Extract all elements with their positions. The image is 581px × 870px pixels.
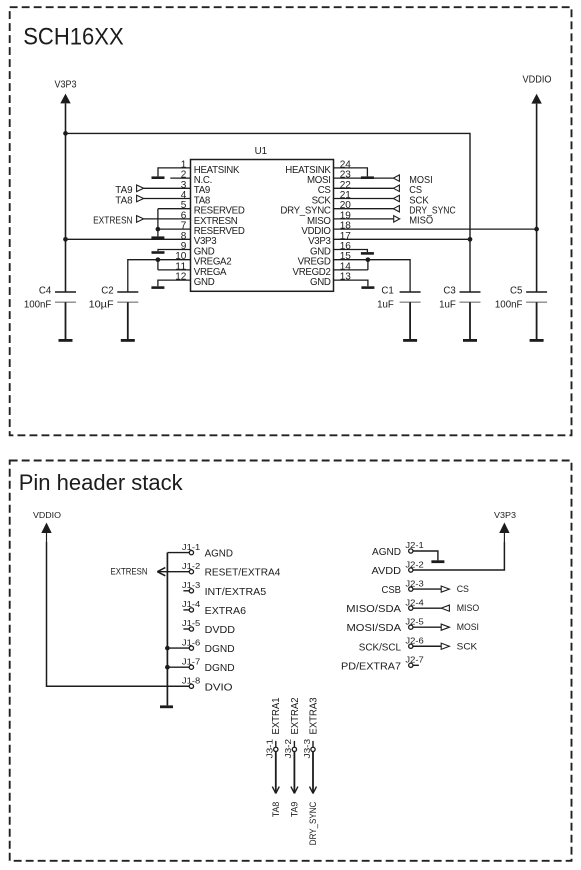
connector J1 pin 7 (DGND) [167,656,235,674]
ground reserved [151,236,164,239]
svg-text:TA8: TA8 [271,802,281,818]
svg-text:DVIO: DVIO [205,681,233,693]
connector J3 pin 1 (EXTRA1) [265,697,283,758]
wire pin19 MISO [334,218,394,220]
svg-text:MOSI/SDA: MOSI/SDA [347,622,402,634]
wire vrega tie [157,260,159,270]
svg-text:GND: GND [310,277,331,288]
svg-text:10µF: 10µF [89,299,114,310]
connector J1 pin 6 (DGND) [167,637,235,655]
U1 pin 19 MISO [307,210,351,226]
junction V3P3 pin17 [468,237,473,242]
port EXTRESN (header) [111,566,166,576]
svg-text:1uF: 1uF [439,299,456,310]
port MISO [394,216,434,227]
svg-text:J1-1: J1-1 [182,542,201,552]
wire pin20 DRY_SYNC [334,208,394,210]
svg-text:EXTRESN: EXTRESN [111,566,148,576]
svg-text:J1-2: J1-2 [182,561,201,571]
U1 pin 4 TA8 [181,190,210,206]
wire C5 to ground [536,302,538,339]
ground pin13 [361,286,374,289]
connector J1 pin 8 (DVIO) [182,676,233,694]
port DRY_SYNC [393,206,455,217]
U1 pin 20 DRY_SYNC [280,200,351,216]
U1 pin 22 CS [318,180,351,196]
wire pin14 VREGD2 [334,269,368,271]
wire pin13 GND [334,280,368,286]
svg-text:EXTRA2: EXTRA2 [289,697,301,734]
ground pin1 [152,176,165,179]
wire to C2 [128,260,158,292]
port CS [393,185,422,196]
capacitor C5 (100nF) [495,285,547,310]
connector J2 pin 6 (SCK/SCL) [359,635,441,653]
svg-text:C3: C3 [443,285,455,296]
wire pin7 RESERVED [158,228,191,230]
wire pin10 VREGA2 [158,259,191,261]
svg-text:CS: CS [457,584,469,594]
svg-text:J2-6: J2-6 [405,635,424,645]
svg-text:EXTRA3: EXTRA3 [307,697,319,734]
ground pin9 [152,251,165,254]
svg-text:VDDIO: VDDIO [523,74,552,85]
svg-text:J1-5: J1-5 [182,618,201,628]
svg-text:MISO: MISO [457,603,480,613]
svg-text:DRY_SYNC: DRY_SYNC [308,801,318,845]
svg-text:100nF: 100nF [24,299,52,310]
port SCK (header) [441,641,477,651]
svg-text:V3P3: V3P3 [55,80,78,91]
svg-text:12: 12 [175,272,187,283]
connector J1 pin 3 (INT/EXTRA5) [182,580,266,598]
connector J2 pin 4 (MISO/SDA) [346,597,441,615]
svg-text:Pin header stack: Pin header stack [19,470,184,495]
power VDDIO [523,74,552,103]
ground pin24 [361,176,374,179]
svg-text:EXTRA1: EXTRA1 [270,697,282,734]
power VDDIO (header) [33,511,61,533]
ground pin12 [151,286,164,289]
wire pin16 GND [334,250,368,253]
junction V3P3 branch [63,131,68,136]
ground J1 [160,705,173,708]
svg-text:1uF: 1uF [377,299,394,310]
wire pin1 HEATSINK to ground [158,168,191,177]
capacitor C3 (1uF) [439,285,480,310]
wire C2 to ground [127,302,129,339]
power V3P3 (header) [494,511,516,533]
connector J3 pin 2 (EXTRA2) [283,697,301,758]
svg-text:TA8: TA8 [115,195,133,206]
wire TA8 to pin4 [144,198,191,200]
port TA8 (down arrow) [271,787,281,818]
IC U1 [191,146,334,291]
connector J1 pin 5 (DVDD) [182,618,236,636]
U1 pin 21 SCK [312,190,352,206]
ground [121,339,135,342]
junction vregd [366,257,371,262]
svg-text:C2: C2 [101,285,113,296]
svg-text:SCK: SCK [457,641,478,651]
svg-text:V3P3: V3P3 [494,511,516,520]
connector J2 pin 3 (CSB) [382,578,442,596]
ground [530,339,544,342]
junction vrega [156,257,161,262]
wire C1 to ground [409,302,411,339]
power V3P3 [55,80,78,104]
wire pin17 V3P3 [334,238,471,240]
wire TA9 to pin3 [144,187,191,189]
svg-text:DVDD: DVDD [205,624,236,636]
U1 pin 23 MOSI [307,170,351,186]
svg-text:J2-4: J2-4 [405,597,424,607]
svg-text:MOSI: MOSI [457,622,479,632]
wire to C1 [368,260,410,292]
connector J2 pin 1 (AGND) [372,540,424,558]
svg-text:J1-7: J1-7 [182,656,201,666]
svg-text:PD/EXTRA7: PD/EXTRA7 [341,660,401,672]
U1 pin 8 V3P3 [181,231,217,247]
junction V3P3 pin8 [63,237,68,242]
ground [59,339,73,342]
port DRY_SYNC (down arrow) [308,787,318,846]
svg-text:J2-2: J2-2 [405,559,424,569]
wire pin9 GND [158,250,191,252]
svg-text:J1-4: J1-4 [182,599,201,609]
U1 pin 3 TA9 [181,180,210,196]
ground pin16 [361,252,374,255]
svg-text:SCH16XX: SCH16XX [23,24,124,51]
connector J2 pin 5 (MOSI/SDA) [347,616,442,634]
wire J3-1 to TA8 [275,752,277,794]
connector J3 pin 3 (EXTRA3) [302,697,320,758]
svg-text:J3-1: J3-1 [265,739,275,759]
svg-text:DGND: DGND [205,662,235,674]
wire pin11 VREGA [158,269,191,271]
svg-text:EXTRESN: EXTRESN [93,216,133,227]
U1 pin 9 GND [181,241,215,257]
svg-text:100nF: 100nF [495,299,523,310]
svg-text:MISO/SDA: MISO/SDA [346,603,401,615]
wire pin12 GND [158,280,191,286]
U1 pin 14 VREGD2 [293,261,352,277]
svg-text:INT/EXTRA5: INT/EXTRA5 [205,586,267,598]
connector J1 pin 1 (AGND) [167,542,233,560]
wire pin22 CS [334,187,394,189]
ground J2-1 [431,560,444,563]
svg-text:GND: GND [194,277,215,288]
wire J2-1 AGND to ground [413,551,438,560]
wire pin5 RESERVED [158,208,191,210]
U1 pin 15 VREGD [298,251,352,267]
svg-text:J3-2: J3-2 [283,739,293,759]
svg-text:AGND: AGND [205,548,234,560]
wire pin21 SCK [334,198,394,200]
port TA8 [115,195,143,206]
svg-text:RESET/EXTRA4: RESET/EXTRA4 [205,567,281,579]
port TA9 [115,185,143,196]
svg-text:MISO: MISO [409,216,433,227]
connector J2 pin 2 (AVDD) [372,559,424,577]
port SCK [393,195,429,206]
svg-text:AVDD: AVDD [372,565,402,577]
svg-text:J2-3: J2-3 [405,578,424,588]
svg-text:CSB: CSB [382,584,402,596]
capacitor C2 (10µF) [89,285,139,310]
wire VDDIO to J1-8 [46,533,48,542]
port CS (header) [441,584,469,594]
wire V3P3 branch to pin 17 [66,133,471,292]
svg-text:AGND: AGND [372,546,401,558]
U1 pin 5 RESERVED [181,200,245,216]
U1 pin 16 GND [310,241,351,257]
wire pin15 VREGD [334,259,368,261]
svg-text:C5: C5 [510,285,522,296]
svg-text:VDDIO: VDDIO [33,511,61,520]
wire vregd tie [367,260,369,270]
U1 pin 12 GND [175,272,215,288]
connector J2 pin 7 (PD/EXTRA7) [341,655,424,673]
svg-text:J1-8: J1-8 [182,676,201,686]
port EXTRESN [93,216,144,227]
connector J1 pin 4 (EXTRA6) [182,599,246,617]
wire pin2 N.C. stub [170,177,190,179]
wire reserved tie to ground [157,209,159,237]
U1 pin 13 GND [310,272,351,288]
wire J2-2 AVDD to V3P3 [503,533,505,542]
wire J1 ground bus [166,553,168,706]
junction J1-7 [165,665,170,670]
wire VDDIO rail [536,104,538,292]
U1 pin 11 VREGA [175,261,227,277]
connector J1 pin 2 (RESET/EXTRA4) [158,561,281,579]
svg-text:DGND: DGND [205,643,235,655]
svg-text:J2-1: J2-1 [405,540,424,550]
junction VDDIO pin18 [534,227,539,232]
U1 pin 1 HEATSINK [181,159,240,175]
wire C4 to ground [65,302,67,339]
svg-text:EXTRA6: EXTRA6 [205,605,247,617]
wire J3-3 to DRY_SYNC [312,752,314,794]
U1 pin 17 V3P3 [308,231,351,247]
svg-text:J1-6: J1-6 [182,637,201,647]
wire V3P3 rail [65,103,67,292]
ground [403,339,417,342]
svg-text:C1: C1 [381,285,393,296]
wire C3 to ground [469,302,471,339]
svg-text:J1-3: J1-3 [182,580,201,590]
junction reserved [156,227,161,232]
wire J3-2 to TA9 [293,752,295,794]
wire pin18 VDDIO [334,228,537,230]
wire pin24 HEATSINK to ground [334,168,368,177]
svg-text:C4: C4 [39,285,52,296]
wire pin23 MOSI [334,177,394,179]
U1 pin 24 HEATSINK [285,159,351,175]
svg-text:J2-7: J2-7 [405,655,424,665]
svg-text:J2-5: J2-5 [405,616,424,626]
svg-text:13: 13 [340,272,352,283]
svg-text:TA9: TA9 [290,802,300,818]
port MOSI [393,175,432,186]
svg-text:U1: U1 [255,146,268,157]
port MOSI (header) [441,622,479,632]
U1 pin 7 RESERVED [181,221,245,237]
ground [463,339,477,342]
U1 pin 18 VDDIO [301,221,351,237]
wire pin8 V3P3 [66,238,191,240]
U1 pin 2 N.C. [181,170,212,186]
port TA9 (down arrow) [290,787,300,818]
svg-text:J3-3: J3-3 [302,739,312,759]
junction J1-6 [165,646,170,651]
svg-text:SCK/SCL: SCK/SCL [359,641,401,653]
U1 pin 6 EXTRESN [181,210,238,226]
U1 pin 10 VREGA2 [175,251,231,267]
port MISO (header) [441,603,479,613]
capacitor C1 (1uF) [377,285,421,310]
capacitor C4 (100nF) [24,285,76,310]
wire EXTRESN to pin6 [144,218,191,220]
